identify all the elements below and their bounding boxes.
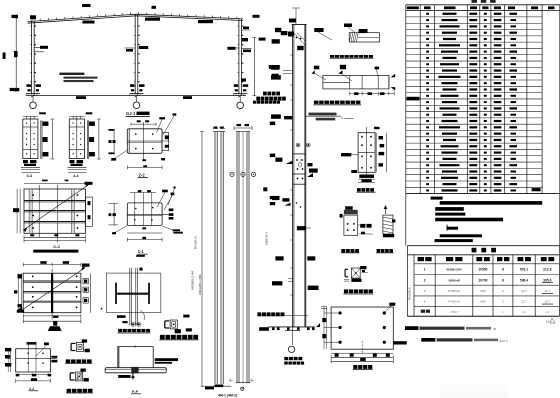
svg-text:450: 450 [480,300,485,304]
svg-text:4M-1(4M-2): 4M-1(4M-2) [409,287,412,300]
svg-text:10700: 10700 [478,278,487,282]
svg-text:24100(B1-1) 4M: 24100(B1-1) 4M [191,271,195,290]
svg-text:4-4: 4-4 [73,174,79,178]
svg-text:12.7: 12.7 [521,300,527,304]
svg-text:2-2: 2-2 [29,387,34,391]
svg-text:1: 1 [424,268,426,272]
svg-text:1-1: 1-1 [138,249,145,254]
svg-text:P-325×16: P-325×16 [448,300,460,304]
svg-text:*H350×8*: *H350×8* [448,278,462,282]
svg-text:24100 B1-1: 24100 B1-1 [265,231,268,245]
svg-text:*H350×150*: *H350×150* [446,268,463,272]
svg-text:4M-1 (4M-2): 4M-1 (4M-2) [218,393,237,397]
svg-text:P-P: P-P [132,390,139,394]
svg-text:12.7: 12.7 [544,300,550,304]
svg-text:4.1: 4.1 [522,310,526,314]
svg-text:212.8: 212.8 [543,268,551,272]
svg-text:████████: ████████ [440,385,509,398]
svg-text:C-C: C-C [53,244,60,249]
svg-text:305.4: 305.4 [543,278,551,282]
svg-text:45: 45 [493,327,497,331]
svg-text:450: 450 [480,289,485,293]
svg-text:1/1: 1/1 [546,320,550,324]
svg-text:12.7: 12.7 [521,289,527,293]
svg-text:GJ-1: GJ-1 [126,111,136,116]
svg-text:8: 8 [502,278,504,282]
svg-text:2: 2 [424,278,426,282]
svg-text:10500: 10500 [478,268,487,272]
svg-text:1.1: 1.1 [545,310,549,314]
svg-text:2-2: 2-2 [139,172,146,177]
svg-text:(4M4 7): (4M4 7) [499,339,508,343]
svg-text:P-325×16: P-325×16 [448,289,460,293]
svg-text:B1-1(B1-2): B1-1(B1-2) [194,236,198,249]
svg-text:~750×?: ~750×? [450,310,459,314]
svg-text:576.1: 576.1 [520,268,528,272]
svg-text:598.4: 598.4 [520,278,528,282]
svg-text:12.7: 12.7 [544,289,550,293]
svg-text:2M4-HLB1-1 4M4: 2M4-HLB1-1 4M4 [198,274,202,295]
svg-text:3-3: 3-3 [27,174,33,178]
svg-text:8: 8 [502,268,504,272]
